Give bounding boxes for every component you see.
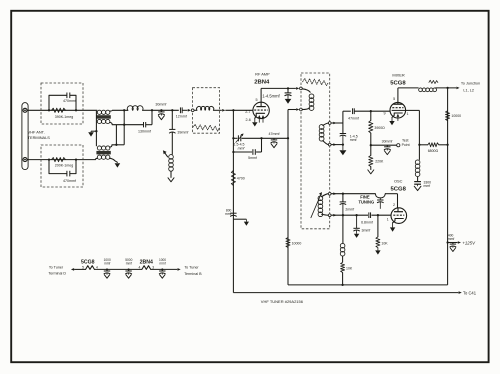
svg-text:To Tuner: To Tuner <box>49 265 64 269</box>
capacitor 2mmf <box>340 194 346 216</box>
junction <box>342 193 344 195</box>
label RF AMP <box>255 72 270 77</box>
svg-text:5mmf: 5mmf <box>248 156 257 160</box>
svg-text:47mmf: 47mmf <box>269 132 280 136</box>
capacitor 30mmf (mixer) <box>384 145 390 150</box>
transformer T2 core <box>96 151 110 155</box>
ground (open) <box>450 248 455 252</box>
ground <box>285 99 292 104</box>
wire heater <box>151 268 178 270</box>
wire <box>171 110 173 129</box>
wire T2 bottom right lead <box>110 158 118 162</box>
junction <box>115 144 117 146</box>
label 220K <box>375 160 384 164</box>
wire cap loop bottom <box>49 160 76 174</box>
svg-text:To C41: To C41 <box>463 290 477 295</box>
label 5mmf <box>248 156 257 160</box>
junction B+ node <box>446 241 448 243</box>
svg-text:47mmf: 47mmf <box>348 116 359 120</box>
svg-text:MIXER: MIXER <box>392 73 405 78</box>
arrow from contact <box>333 192 336 195</box>
svg-text:9: 9 <box>384 111 386 115</box>
cathode ground <box>390 223 395 232</box>
svg-text:2: 2 <box>393 203 395 207</box>
wire <box>288 110 296 139</box>
junction <box>446 144 448 146</box>
label 6800 <box>428 149 439 153</box>
resistor 10000 (B+) <box>446 111 450 121</box>
inductor osc injection coil <box>415 160 420 177</box>
tube label 2BN4 <box>254 80 270 86</box>
wire osc grid line <box>331 214 391 216</box>
resistor 3900 <box>369 111 373 145</box>
plate <box>393 88 402 104</box>
resistor 200K-1meg <box>52 158 66 162</box>
capacitor 470mmf (bottom) <box>67 171 70 177</box>
junction <box>287 137 289 139</box>
arrow +125V <box>458 241 461 244</box>
cathode ground <box>389 117 394 125</box>
grid <box>392 107 403 109</box>
transformer T2 top winding <box>97 146 110 150</box>
ground (open) <box>126 275 131 278</box>
junction <box>446 87 448 89</box>
label 2mmf <box>345 207 354 211</box>
cathode <box>255 113 265 118</box>
wire <box>435 87 456 89</box>
pin 9 <box>384 111 386 115</box>
capacitor 400mmf <box>450 243 456 248</box>
transformer T1 bottom winding <box>97 119 110 123</box>
wire osc plate line <box>331 193 375 195</box>
svg-text:2-7: 2-7 <box>245 110 250 114</box>
svg-text:390K-1meg: 390K-1meg <box>55 115 74 119</box>
wire B- rail <box>288 284 448 286</box>
svg-text:VHF TUNER #29A2156: VHF TUNER #29A2156 <box>261 299 304 304</box>
label MIXER <box>392 73 405 78</box>
wire plate line <box>261 87 296 89</box>
label To C41 <box>463 290 477 295</box>
resistor 10K (grid leak) <box>376 215 380 250</box>
switch contact <box>191 109 194 112</box>
junction <box>287 87 289 89</box>
capacitor 1000mmf <box>104 269 110 274</box>
ground <box>115 163 121 167</box>
screen bar <box>392 109 406 111</box>
switch contact <box>328 143 331 146</box>
fine tuning dip <box>375 194 385 198</box>
svg-text:220K: 220K <box>375 160 384 164</box>
svg-text:mmf: mmf <box>448 237 454 241</box>
inductor antenna coil <box>197 107 214 111</box>
arrow To Tuner Terminal D <box>71 268 74 271</box>
ground (open) <box>384 151 390 155</box>
junction <box>260 137 262 139</box>
capacitor 39mmf <box>169 129 175 133</box>
svg-text:2BN4: 2BN4 <box>140 259 153 265</box>
ground <box>375 250 380 254</box>
dashed box antenna R/C bottom <box>41 145 83 187</box>
inductor IF output coil <box>419 88 437 92</box>
wire T2 top right lead <box>110 145 117 147</box>
svg-text:10000: 10000 <box>292 241 302 245</box>
capacitor 5mmf <box>253 149 255 155</box>
junction <box>75 109 77 111</box>
sketch resistor (dotted) <box>193 124 219 131</box>
wire riser <box>115 125 117 145</box>
label 470mmf <box>63 179 76 183</box>
svg-text:Terminal D: Terminal D <box>48 272 66 276</box>
wire <box>417 177 419 182</box>
resistor 6800 <box>419 143 447 147</box>
trimmer 1-4.5mmf (mixer) <box>340 134 346 151</box>
pin 2 <box>393 203 395 207</box>
dashed box channel strip <box>301 73 330 229</box>
heater 2BN4 <box>142 266 151 270</box>
inductor mixer grid coil <box>319 123 328 145</box>
junction <box>106 268 108 270</box>
label 5000 mmf <box>125 258 132 266</box>
wire <box>171 132 173 154</box>
resistor 10000 <box>286 238 290 248</box>
label 47mmf <box>269 132 280 136</box>
junction <box>48 158 50 160</box>
capacitor 5000mmf <box>125 269 131 274</box>
svg-text:VHF ANT.: VHF ANT. <box>28 129 45 134</box>
svg-text:4700: 4700 <box>237 177 245 181</box>
svg-text:Terminal B: Terminal B <box>184 272 202 276</box>
arrow from contact <box>333 214 336 217</box>
label VHF ANT. TERMINALS <box>28 129 51 140</box>
dashed box antenna R/C top <box>41 83 83 124</box>
capacitor 3300mmf <box>414 182 421 187</box>
ground <box>244 222 249 226</box>
tube U2 5CG8 mixer envelope <box>390 102 406 118</box>
label VHF TUNER <box>261 299 304 304</box>
junction <box>128 268 130 270</box>
junction <box>95 130 97 132</box>
trimmer 1.5-4.5mmf <box>236 134 244 143</box>
junction <box>171 109 173 111</box>
junction <box>123 109 125 111</box>
ground (open) <box>271 144 277 148</box>
ground (open) <box>104 275 109 278</box>
wire grid feed <box>225 109 253 111</box>
wire 130mmf branch <box>124 110 152 124</box>
capacitor 47mmf (mixer) <box>353 108 355 114</box>
inductor osc coil <box>318 194 328 217</box>
label To Tuner Terminal B <box>184 266 202 276</box>
svg-text:30mmf: 30mmf <box>382 139 393 143</box>
svg-text:5: 5 <box>256 98 258 102</box>
junction <box>342 214 344 216</box>
inductor RF plate coil <box>302 89 314 111</box>
label 10000 <box>292 241 302 245</box>
svg-text:4: 4 <box>138 266 140 270</box>
inductor L1 (parallel) <box>127 106 143 111</box>
junction <box>355 214 357 216</box>
pin 3 <box>152 266 154 270</box>
svg-text:1-4.5mmf: 1-4.5mmf <box>262 94 280 99</box>
ground <box>339 150 346 155</box>
junction <box>160 109 162 111</box>
pin 1 <box>387 217 389 221</box>
svg-text:mmf: mmf <box>104 261 110 265</box>
svg-text:RF AMP: RF AMP <box>255 72 270 77</box>
pin 4 <box>96 266 98 270</box>
svg-text:39mmf: 39mmf <box>177 131 188 135</box>
wire T2 bottom left lead <box>95 158 97 159</box>
svg-text:mmf: mmf <box>238 146 246 150</box>
wire T1 ground leg <box>95 111 97 146</box>
wire plate to coil <box>398 87 419 89</box>
wire <box>233 137 261 139</box>
wire <box>385 194 397 208</box>
svg-text:12mmf: 12mmf <box>176 115 187 119</box>
svg-text:2BN4: 2BN4 <box>254 80 270 86</box>
wire <box>170 171 172 177</box>
label 47mmf <box>348 116 359 120</box>
wire <box>213 109 221 111</box>
trimmer 1-4.5mmf <box>285 88 292 99</box>
capacitor 130mmf <box>144 122 146 127</box>
wire 5mmf loop <box>233 138 261 152</box>
ground (open) <box>158 116 164 120</box>
wire antenna top <box>27 109 97 111</box>
resistor 390K-1meg <box>52 108 66 112</box>
svg-text:TERMINALS: TERMINALS <box>28 135 51 140</box>
label 4700 <box>237 177 245 181</box>
junction <box>48 109 50 111</box>
junction <box>232 151 234 153</box>
heater arrows <box>258 115 265 123</box>
wire <box>152 109 179 111</box>
junction <box>370 110 372 112</box>
switch contact <box>328 192 331 195</box>
arrow from contact <box>333 122 336 125</box>
svg-text:5: 5 <box>82 266 84 270</box>
wire heater <box>74 268 86 270</box>
svg-text:mmf: mmf <box>225 212 231 216</box>
label 130mmf <box>138 129 151 133</box>
wire cap loop top <box>49 95 76 110</box>
inductor <box>340 243 345 256</box>
wire to ground <box>91 130 96 132</box>
tube label 5CG8 (heater) <box>81 259 95 265</box>
wire To C41 <box>233 292 458 294</box>
plate <box>256 88 265 106</box>
switch contact <box>328 122 331 125</box>
junction <box>232 137 234 139</box>
label 800 mmf <box>225 208 232 216</box>
inductor (adjustable) <box>169 155 174 172</box>
terminal B (bottom) <box>23 158 27 162</box>
label To Junction L1 L2 <box>461 82 480 93</box>
wire antenna bottom <box>27 159 95 161</box>
arrow to contact <box>296 108 299 111</box>
tube label 5CG8 (osc) <box>391 186 407 192</box>
label 1-4.5mmf <box>262 94 280 99</box>
svg-text:5CG8: 5CG8 <box>391 186 407 192</box>
sketch resistor (dotted) <box>303 78 329 85</box>
pin 1 <box>407 112 409 116</box>
svg-text:1: 1 <box>407 112 409 116</box>
junction <box>342 143 344 145</box>
wire +125V <box>448 242 458 244</box>
svg-text:30mmf: 30mmf <box>155 103 166 107</box>
capacitor 47mmf (grid) <box>271 138 277 143</box>
arrow from contact <box>333 143 336 146</box>
label +125V <box>462 240 476 245</box>
wire ground branch <box>233 219 246 221</box>
tube U3 5CG8 osc envelope <box>391 208 407 224</box>
label 3mmf <box>362 229 371 233</box>
pin 5 <box>256 98 258 102</box>
svg-text:2-6: 2-6 <box>245 118 250 122</box>
label 1000 mmf <box>104 258 111 266</box>
svg-text:130mmf: 130mmf <box>138 129 151 133</box>
svg-text:5CG8: 5CG8 <box>390 80 406 86</box>
svg-text:5: 5 <box>393 97 395 101</box>
label 6.8mmf <box>361 220 373 224</box>
resistor 4700 <box>231 171 235 186</box>
wire grid line <box>262 137 288 139</box>
svg-text:200K-1meg: 200K-1meg <box>55 164 74 168</box>
wire mixer right lead <box>405 110 419 159</box>
svg-text:470mmf: 470mmf <box>63 99 76 103</box>
svg-text:Point: Point <box>402 143 410 147</box>
wire <box>194 109 197 111</box>
label 39mmf <box>177 131 188 135</box>
wire vertical node <box>123 110 125 145</box>
label 390K-1meg <box>55 115 74 119</box>
tube label 5CG8 <box>390 80 406 86</box>
test point <box>397 144 400 147</box>
label 1.5-4.5 <box>234 143 245 147</box>
cathode ground <box>252 118 257 126</box>
svg-text:mmf: mmf <box>350 138 357 142</box>
junction <box>75 158 77 160</box>
wire <box>287 138 289 285</box>
plate <box>394 208 403 212</box>
arrow To Tuner Terminal B <box>178 268 181 271</box>
junction <box>151 109 153 111</box>
junction <box>232 109 234 111</box>
capacitor 1000mmf <box>159 269 165 274</box>
pin 5 <box>82 266 84 270</box>
arrow from contact <box>222 109 225 112</box>
junction <box>123 124 125 126</box>
svg-text:470mmf: 470mmf <box>63 179 76 183</box>
cathode <box>392 113 402 117</box>
pin 2-7 <box>245 110 250 114</box>
switch contact <box>328 214 331 217</box>
grid <box>393 214 404 216</box>
sketch resistor <box>429 80 438 83</box>
wire <box>182 109 187 111</box>
ground (open) <box>414 186 421 190</box>
switch contact <box>300 108 303 111</box>
capacitor 470mmf (top) <box>67 93 70 99</box>
svg-text:mmf: mmf <box>159 261 165 265</box>
arrow to contact <box>296 87 299 90</box>
svg-text:6800Ω: 6800Ω <box>428 149 439 153</box>
label 10K <box>381 242 388 246</box>
label 470mmf <box>63 99 76 103</box>
label 30mmf <box>155 103 166 107</box>
junction <box>161 268 163 270</box>
svg-text:L1, L2: L1, L2 <box>463 88 474 92</box>
svg-text:TUNING: TUNING <box>358 199 374 204</box>
svg-text:10000: 10000 <box>451 114 461 118</box>
capacitor 3mmf <box>353 215 359 234</box>
dashed box antenna coil <box>193 88 220 134</box>
resistor 220K <box>369 145 373 170</box>
terminal A (top) <box>23 108 27 112</box>
wire <box>331 123 343 134</box>
transformer T2 bottom winding <box>97 155 110 159</box>
grid <box>254 109 268 111</box>
wire heater <box>94 268 141 270</box>
wire T1 bottom right lead <box>110 122 125 124</box>
label 10000 <box>451 114 461 118</box>
svg-text:2mmf: 2mmf <box>345 207 354 211</box>
svg-text:To Tuner: To Tuner <box>184 266 199 270</box>
junction <box>418 144 420 146</box>
cathode <box>393 219 404 223</box>
label 3300 mmf <box>424 180 432 188</box>
arrow To C41 <box>459 291 462 294</box>
heater arrow <box>397 114 400 121</box>
wire T1 secondary top to main line <box>110 109 128 112</box>
label OSC <box>394 179 403 184</box>
svg-text:To Junction: To Junction <box>461 82 480 86</box>
ground <box>354 234 359 238</box>
pin 5 <box>393 97 395 101</box>
wire <box>232 110 234 292</box>
wire <box>342 215 344 243</box>
transformer T1 top winding <box>97 110 110 114</box>
label 1000 mmf <box>159 258 166 266</box>
svg-text:6.8mmf: 6.8mmf <box>361 220 373 224</box>
svg-text:1: 1 <box>387 217 389 221</box>
label To Tuner Terminal D <box>48 265 66 275</box>
svg-text:+125V: +125V <box>462 240 476 245</box>
junction <box>370 144 372 146</box>
wire <box>371 144 397 146</box>
label 30mmf <box>382 139 393 143</box>
svg-text:mmf: mmf <box>126 261 132 265</box>
svg-text:10K: 10K <box>346 266 353 270</box>
svg-text:mmf: mmf <box>424 184 431 188</box>
svg-text:3mmf: 3mmf <box>362 229 371 233</box>
ground (open) <box>368 170 374 174</box>
label FINE TUNING <box>358 195 374 205</box>
antenna terminal strip <box>22 103 28 170</box>
junction <box>341 284 343 286</box>
pin 4 <box>138 266 140 270</box>
label 12mmf <box>176 115 187 119</box>
switch contact <box>300 87 303 90</box>
tube U1 2BN4 envelope <box>253 102 269 118</box>
wire <box>447 88 449 285</box>
label mmf <box>238 146 246 150</box>
pin 2-6 <box>245 118 250 122</box>
wire <box>143 109 153 111</box>
label 200K-1meg <box>55 164 74 168</box>
capacitor 12mmf <box>180 107 182 113</box>
wire corner to T2 <box>116 144 124 146</box>
